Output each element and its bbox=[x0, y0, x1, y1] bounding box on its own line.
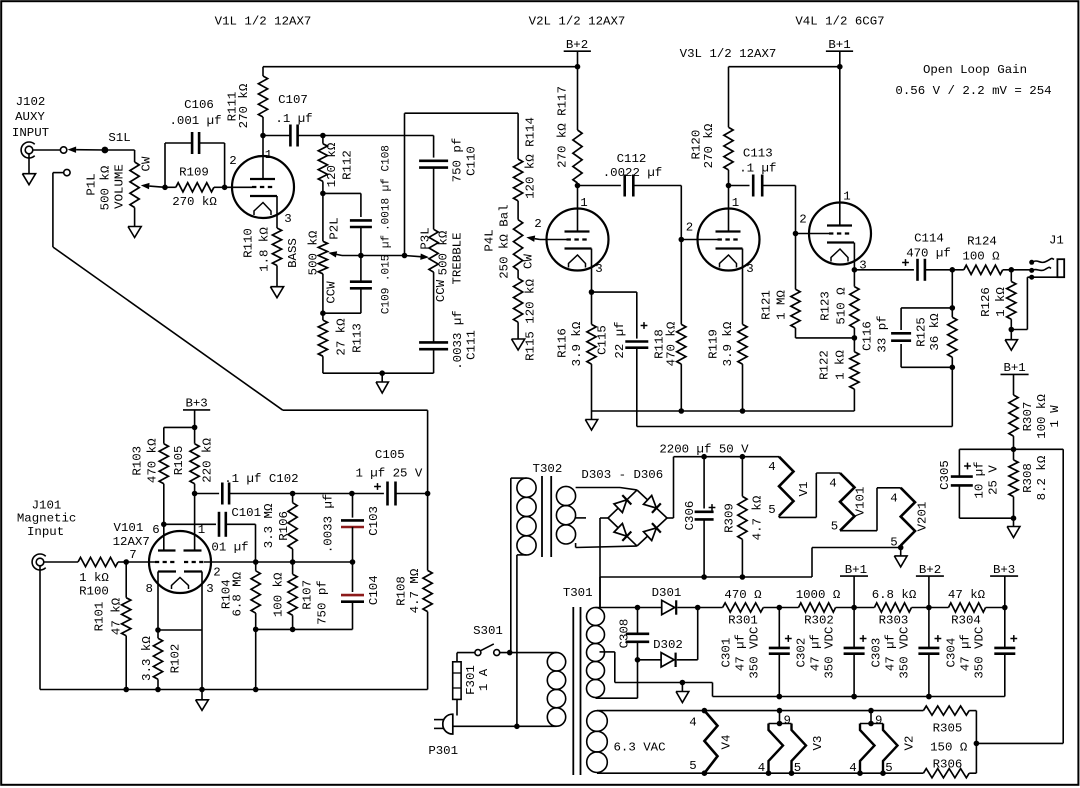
resistor R104 bbox=[251, 571, 260, 613]
wire C111 to bottom bbox=[433, 349, 435, 373]
node R103 bottom pin6 bbox=[161, 522, 167, 528]
svg-text:8.2 kΩ: 8.2 kΩ bbox=[1035, 455, 1049, 500]
resistor R301 bbox=[723, 603, 764, 612]
svg-text:R308: R308 bbox=[1021, 463, 1035, 493]
wire V2L cathode lead bbox=[591, 249, 593, 293]
svg-text:5: 5 bbox=[768, 503, 775, 517]
capacitor C104 bbox=[352, 562, 354, 592]
svg-text:R115 120 kΩ: R115 120 kΩ bbox=[524, 279, 538, 361]
wire T301 center tap bbox=[600, 651, 615, 653]
ground J102 bbox=[28, 154, 30, 174]
ground R308 bbox=[1013, 518, 1015, 526]
node R109 right / grid bbox=[222, 185, 228, 191]
svg-text:C111: C111 bbox=[465, 330, 479, 360]
wire V1L cathode lead bbox=[276, 196, 278, 228]
node C306 top bbox=[701, 454, 707, 460]
svg-text:V3: V3 bbox=[811, 736, 825, 751]
svg-text:R307: R307 bbox=[1021, 402, 1035, 432]
svg-text:6.3 VAC: 6.3 VAC bbox=[613, 741, 665, 755]
node R107 bottom bbox=[290, 627, 296, 633]
wire V2L anode lead bbox=[577, 186, 579, 232]
svg-text:R110: R110 bbox=[242, 228, 256, 258]
svg-text:470 kΩ: 470 kΩ bbox=[146, 438, 160, 483]
svg-text:5: 5 bbox=[794, 761, 801, 775]
node tone stack ground bbox=[379, 370, 385, 376]
wire P3L bottom bbox=[433, 272, 435, 342]
resistor R126 bbox=[1010, 270, 1012, 282]
svg-text:J1: J1 bbox=[1049, 234, 1064, 248]
switch S1L throw 2 bbox=[64, 169, 70, 175]
wire T301 sec bottom bbox=[596, 697, 638, 699]
capacitor C301 bbox=[778, 608, 780, 648]
svg-text:1 kΩ: 1 kΩ bbox=[994, 287, 1008, 317]
svg-text:CW: CW bbox=[140, 156, 154, 171]
fuse F301 bbox=[453, 662, 461, 700]
node R125 bottom bbox=[950, 365, 956, 371]
wire switch to T301 primary bbox=[500, 652, 557, 654]
wire V101 pin6 lead bbox=[163, 524, 165, 550]
svg-text:V2L 1/2 12AX7: V2L 1/2 12AX7 bbox=[529, 15, 626, 29]
svg-text:V2: V2 bbox=[903, 736, 917, 751]
svg-text:R107: R107 bbox=[301, 580, 315, 610]
node V4 bottom bbox=[702, 770, 708, 776]
ground R126 bbox=[1010, 330, 1012, 340]
svg-text:R103: R103 bbox=[131, 446, 145, 476]
svg-text:47 µf: 47 µf bbox=[959, 634, 973, 671]
resistor R108 bbox=[423, 570, 432, 611]
node R107 top bbox=[290, 559, 296, 565]
svg-text:R113: R113 bbox=[351, 323, 365, 353]
svg-text:1: 1 bbox=[198, 523, 205, 537]
node R101 bottom bbox=[123, 687, 129, 693]
node V101 grid A bbox=[123, 559, 129, 565]
node R118 bottom bbox=[679, 408, 685, 414]
node D301 out bbox=[695, 605, 701, 611]
wire C103 bottom bbox=[352, 527, 354, 562]
node cathode A junction bbox=[155, 627, 161, 633]
node C302 bottom bbox=[851, 694, 857, 700]
svg-text:750 pf: 750 pf bbox=[316, 580, 330, 625]
resistor R116 bbox=[591, 292, 593, 324]
svg-text:B+2: B+2 bbox=[566, 38, 588, 52]
node B+2 rail junction bbox=[575, 64, 581, 70]
wire C115 to lower rail bbox=[636, 348, 638, 427]
resistor R121 bbox=[795, 234, 797, 290]
svg-text:270 kΩ: 270 kΩ bbox=[172, 195, 217, 209]
svg-text:C302: C302 bbox=[795, 638, 809, 668]
svg-text:R304: R304 bbox=[951, 613, 981, 627]
svg-text:1.8 kΩ: 1.8 kΩ bbox=[258, 227, 272, 272]
polarity C105 bbox=[374, 486, 381, 488]
svg-text:P3L: P3L bbox=[419, 227, 433, 249]
svg-text:500 kΩ: 500 kΩ bbox=[306, 230, 320, 275]
polarity C115 bbox=[641, 325, 648, 327]
node R105 bottom pin1 bbox=[192, 491, 198, 497]
svg-text:4: 4 bbox=[849, 761, 856, 775]
svg-text:10 µf: 10 µf bbox=[972, 461, 986, 498]
svg-text:C114: C114 bbox=[914, 231, 944, 245]
ground V201 bbox=[900, 548, 902, 556]
node C306 bottom bbox=[701, 574, 707, 580]
svg-text:4: 4 bbox=[890, 492, 897, 506]
svg-text:R305: R305 bbox=[933, 721, 963, 735]
svg-text:Open Loop Gain: Open Loop Gain bbox=[923, 63, 1027, 77]
node C103/C104 mid bbox=[350, 559, 356, 565]
node R106 top bbox=[290, 491, 296, 497]
wire heater loop top bbox=[597, 710, 923, 712]
svg-text:270 kΩ: 270 kΩ bbox=[702, 123, 716, 168]
node C301 bottom bbox=[777, 694, 783, 700]
resistor R302 bbox=[779, 607, 798, 609]
svg-text:2: 2 bbox=[534, 217, 541, 231]
svg-text:47 µf: 47 µf bbox=[809, 634, 823, 671]
svg-text:.0033 µf: .0033 µf bbox=[451, 310, 465, 370]
ground cathode rail bbox=[591, 411, 593, 420]
capacitor C116 loop bbox=[901, 307, 952, 309]
wire T302 sec bottom bbox=[575, 543, 577, 548]
node C302 top bbox=[851, 605, 857, 611]
wire C112 to V3L grid bbox=[680, 186, 682, 240]
svg-text:470 kΩ: 470 kΩ bbox=[665, 321, 679, 366]
resistor R113 bbox=[322, 313, 324, 320]
svg-text:TREBBLE: TREBBLE bbox=[451, 232, 465, 284]
node feedback tap bbox=[974, 741, 980, 747]
heater V4 bbox=[704, 711, 717, 774]
svg-text:3: 3 bbox=[206, 582, 213, 596]
capacitor C305 bbox=[959, 448, 1013, 450]
svg-text:3.3 kΩ: 3.3 kΩ bbox=[140, 636, 154, 681]
wire T301 sec top bbox=[599, 577, 601, 608]
polarity C114 bbox=[902, 262, 909, 264]
svg-text:510 Ω: 510 Ω bbox=[835, 287, 849, 325]
resistor R106 bbox=[292, 494, 294, 503]
node V2 center tap bbox=[868, 721, 874, 727]
svg-text:R106: R106 bbox=[277, 511, 291, 541]
svg-text:R109: R109 bbox=[179, 165, 209, 179]
svg-text:C306: C306 bbox=[683, 501, 697, 531]
wire filter row bbox=[698, 607, 723, 609]
svg-text:C109 .015 µf: C109 .015 µf bbox=[381, 235, 393, 314]
svg-text:C305: C305 bbox=[938, 460, 952, 490]
wire R125 to lower rail bbox=[951, 367, 953, 426]
svg-text:R303: R303 bbox=[879, 613, 909, 627]
node V3L grid bbox=[679, 237, 685, 243]
svg-text:4: 4 bbox=[758, 761, 765, 775]
plug P301 bbox=[443, 714, 453, 734]
resistor R122 bbox=[853, 338, 855, 352]
resistor R303 bbox=[854, 607, 874, 609]
wire T302 center tap bbox=[576, 517, 586, 519]
wire V3L cathode lead bbox=[742, 249, 744, 325]
node R112 top bbox=[320, 133, 326, 139]
transformer T302 secondary bbox=[556, 486, 575, 505]
node V201 bottom bbox=[898, 545, 904, 551]
svg-text:47 kΩ: 47 kΩ bbox=[110, 597, 124, 635]
jack J101 bbox=[36, 558, 44, 566]
resistor R102 bbox=[157, 630, 159, 638]
capacitor C107 bbox=[263, 135, 290, 137]
heater V3 bbox=[779, 711, 781, 724]
wire V101 pin1 lead bbox=[194, 494, 196, 551]
wiper P4L bbox=[535, 238, 540, 241]
wire lower eq row bbox=[256, 628, 353, 630]
node R102 bottom bbox=[155, 687, 161, 693]
svg-text:1: 1 bbox=[580, 196, 587, 210]
svg-text:S301: S301 bbox=[473, 624, 503, 638]
transformer T301 primary bbox=[547, 653, 565, 671]
capacitor C110 bbox=[433, 136, 435, 158]
heater resistor V1 bbox=[779, 457, 794, 516]
resistor R110 bbox=[272, 228, 281, 266]
svg-text:C107: C107 bbox=[278, 93, 308, 107]
svg-text:B+3: B+3 bbox=[993, 563, 1015, 577]
svg-text:6.8 kΩ: 6.8 kΩ bbox=[872, 588, 917, 602]
wire V4L cathode lead bbox=[853, 243, 855, 270]
resistor R115 bbox=[517, 270, 519, 278]
svg-text:C110: C110 bbox=[465, 146, 479, 176]
node T302 primary tap 1 bbox=[507, 650, 513, 656]
capacitor C105 bbox=[352, 493, 384, 495]
svg-text:.0022 µf: .0022 µf bbox=[603, 166, 663, 180]
svg-text:27 kΩ: 27 kΩ bbox=[335, 318, 349, 356]
capacitor C102 bbox=[195, 493, 220, 495]
svg-text:C103: C103 bbox=[367, 506, 381, 536]
svg-text:R119: R119 bbox=[707, 329, 721, 359]
node V4 top bbox=[702, 708, 708, 714]
svg-text:R302: R302 bbox=[804, 613, 834, 627]
wire R112 to C108 bbox=[323, 192, 361, 194]
capacitor C108 bbox=[350, 219, 372, 222]
wire C109 bottom bbox=[360, 288, 362, 313]
svg-text:R301: R301 bbox=[728, 613, 758, 627]
svg-text:1 kΩ: 1 kΩ bbox=[834, 350, 848, 380]
svg-text:5: 5 bbox=[831, 520, 838, 534]
switch S1L contact bbox=[60, 147, 66, 153]
capacitor C304 bbox=[1004, 608, 1006, 648]
wire cathode rail bbox=[592, 410, 855, 412]
svg-text:0.56 V / 2.2 mV = 254: 0.56 V / 2.2 mV = 254 bbox=[895, 84, 1051, 98]
resistor R112 bbox=[322, 136, 324, 144]
capacitor C302 bbox=[853, 608, 855, 648]
svg-text:V101: V101 bbox=[854, 487, 868, 517]
svg-text:B+1: B+1 bbox=[845, 563, 867, 577]
svg-text:270 kΩ: 270 kΩ bbox=[237, 83, 251, 128]
svg-text:V1L 1/2 12AX7: V1L 1/2 12AX7 bbox=[215, 15, 312, 29]
svg-text:C101: C101 bbox=[231, 506, 261, 520]
svg-text:BASS: BASS bbox=[286, 238, 300, 268]
resistor R101 bbox=[125, 562, 127, 598]
wire V101 to V201 bbox=[840, 530, 877, 532]
svg-text:R306: R306 bbox=[933, 757, 963, 771]
resistor R123 bbox=[853, 270, 855, 287]
wire heater loop bottom bbox=[597, 772, 923, 774]
svg-text:R309: R309 bbox=[723, 503, 737, 533]
wire rectifier negative rail bbox=[600, 576, 812, 578]
svg-text:VOLUME: VOLUME bbox=[113, 164, 127, 209]
svg-text:350 VDC: 350 VDC bbox=[973, 627, 987, 679]
svg-text:C106: C106 bbox=[184, 98, 214, 112]
wire C110 to P3L bbox=[433, 168, 435, 230]
svg-text:.0033 µf: .0033 µf bbox=[322, 494, 336, 554]
wire diagonal aux to magnetic stage bbox=[53, 247, 283, 410]
resistor R306 bbox=[923, 769, 969, 778]
wire V4L anode lead bbox=[839, 67, 841, 226]
svg-text:1 kΩ: 1 kΩ bbox=[79, 571, 109, 585]
node R104 rail bbox=[253, 687, 259, 693]
svg-text:750 pf: 750 pf bbox=[451, 138, 465, 183]
svg-text:D302: D302 bbox=[653, 638, 683, 652]
wire filter ground rail bbox=[712, 683, 714, 697]
svg-text:V4L 1/2 6CG7: V4L 1/2 6CG7 bbox=[795, 15, 884, 29]
heater resistor V101 bbox=[840, 473, 855, 531]
svg-text:1: 1 bbox=[843, 190, 850, 204]
svg-text:36 kΩ: 36 kΩ bbox=[928, 313, 942, 351]
resistor R111 bbox=[262, 67, 264, 76]
node C304 top bbox=[1002, 605, 1008, 611]
potentiometer P3L bbox=[429, 229, 438, 272]
svg-text:J101: J101 bbox=[32, 498, 62, 512]
node S1L pole bbox=[102, 147, 109, 154]
node V3 center tap bbox=[777, 721, 783, 727]
svg-text:R124: R124 bbox=[967, 234, 997, 248]
jack J1 bbox=[1011, 269, 1031, 271]
svg-text:.1 µf: .1 µf bbox=[275, 112, 312, 126]
wire V101 cathode B pin3 bbox=[201, 572, 203, 690]
svg-text:.1 µf: .1 µf bbox=[739, 161, 776, 175]
jack J1 tip contact bbox=[1029, 260, 1034, 265]
svg-text:R126: R126 bbox=[979, 287, 993, 317]
transformer T301 6.3V winding bbox=[587, 711, 608, 732]
node R123 bottom bbox=[852, 335, 858, 341]
svg-text:8: 8 bbox=[145, 582, 152, 596]
potentiometer P4L bbox=[514, 220, 523, 270]
wire aux feed column bbox=[427, 410, 429, 570]
svg-text:470 Ω: 470 Ω bbox=[724, 588, 762, 602]
node V2 top bbox=[868, 708, 874, 714]
node R307 bottom bbox=[1011, 447, 1017, 453]
svg-text:AUXY: AUXY bbox=[15, 110, 45, 124]
wire cathode jumper bbox=[158, 629, 202, 631]
svg-text:C112: C112 bbox=[617, 152, 647, 166]
jack J1 ring contact bbox=[1029, 268, 1034, 273]
transformer T301 HV secondary bbox=[587, 608, 605, 626]
capacitor C306 bbox=[703, 457, 705, 509]
resistor R120 bbox=[728, 67, 730, 128]
polarity C306 bbox=[709, 507, 716, 509]
svg-text:B+1: B+1 bbox=[828, 38, 850, 52]
polarity C304 bbox=[1010, 638, 1017, 640]
capacitor C111 bbox=[419, 341, 448, 344]
node C301 rail bbox=[777, 694, 783, 700]
node R125 top bbox=[950, 305, 956, 311]
svg-text:150 Ω: 150 Ω bbox=[930, 741, 968, 755]
svg-text:C303: C303 bbox=[870, 638, 884, 668]
node C303 rail bbox=[926, 694, 932, 700]
ground P1L bbox=[134, 208, 136, 227]
resistor R304 bbox=[929, 607, 949, 609]
wire V4L grid lead bbox=[796, 233, 830, 235]
svg-text:C308: C308 bbox=[618, 619, 632, 649]
wire C107 to C110 bbox=[323, 135, 434, 137]
svg-text:.1 µf C102: .1 µf C102 bbox=[224, 472, 298, 486]
svg-text:01 µf: 01 µf bbox=[211, 540, 248, 554]
svg-text:C113: C113 bbox=[743, 147, 773, 161]
node C303 bottom bbox=[926, 694, 932, 700]
svg-text:4: 4 bbox=[689, 716, 696, 730]
wire V3L anode lead bbox=[728, 186, 730, 232]
resistor R105 bbox=[194, 427, 196, 443]
wiper P2L bbox=[337, 254, 342, 255]
node V4L grid bbox=[793, 231, 799, 237]
resistor R125 bbox=[948, 317, 957, 357]
node P2L bottom bbox=[320, 310, 326, 316]
svg-text:4.7 kΩ: 4.7 kΩ bbox=[751, 495, 765, 540]
svg-text:C304: C304 bbox=[945, 638, 959, 668]
switch S301 bbox=[475, 650, 481, 656]
svg-text:9: 9 bbox=[784, 714, 791, 728]
svg-text:4.7 MΩ: 4.7 MΩ bbox=[408, 568, 422, 613]
ground tone stack bbox=[381, 373, 383, 382]
svg-text:C104: C104 bbox=[367, 575, 381, 605]
resistor R100 bbox=[44, 561, 78, 563]
svg-text:220 kΩ: 220 kΩ bbox=[201, 438, 215, 483]
resistor R119 bbox=[738, 324, 747, 364]
svg-text:4: 4 bbox=[768, 460, 775, 474]
svg-text:B+3: B+3 bbox=[185, 397, 207, 411]
svg-text:D303 - D306: D303 - D306 bbox=[581, 468, 663, 482]
svg-text:6.8 MΩ: 6.8 MΩ bbox=[231, 571, 245, 616]
svg-text:100 kΩ: 100 kΩ bbox=[272, 572, 286, 617]
node C308 top bbox=[635, 605, 641, 611]
svg-text:F301: F301 bbox=[464, 665, 478, 695]
wire V3L B+ feed bbox=[729, 66, 840, 68]
svg-text:7: 7 bbox=[129, 548, 136, 562]
node V3 bottom 4 bbox=[766, 770, 772, 776]
svg-text:2: 2 bbox=[229, 154, 236, 168]
potentiometer P1L bbox=[130, 162, 139, 208]
svg-text:500 kΩ: 500 kΩ bbox=[437, 230, 451, 275]
capacitor C112 bbox=[578, 185, 621, 187]
svg-text:.0018 µf C108: .0018 µf C108 bbox=[381, 145, 393, 231]
svg-text:470 µf: 470 µf bbox=[906, 246, 951, 260]
svg-text:CW: CW bbox=[522, 254, 536, 269]
node V4L cathode bbox=[852, 267, 858, 273]
svg-text:100 kΩ: 100 kΩ bbox=[1035, 394, 1049, 439]
svg-text:47 µf: 47 µf bbox=[734, 634, 748, 671]
wire B+2 rail bbox=[577, 51, 579, 66]
svg-text:R116: R116 bbox=[556, 328, 570, 358]
node V1L anode junction bbox=[260, 133, 266, 139]
transformer T302 primary bbox=[517, 478, 536, 497]
ground input stage bbox=[201, 690, 203, 700]
bridge rectifier D303-D306 bbox=[608, 490, 637, 518]
node R126 top bbox=[1009, 267, 1015, 273]
wire J102 to S1L bbox=[33, 149, 61, 151]
wire T302 sec top bbox=[576, 487, 620, 489]
svg-text:R101: R101 bbox=[93, 602, 107, 632]
ground power supply bbox=[681, 683, 683, 692]
polarity C302 bbox=[860, 638, 867, 640]
resistor R103 bbox=[163, 427, 165, 443]
resistor R117 bbox=[577, 67, 579, 130]
svg-text:2: 2 bbox=[686, 221, 693, 235]
resistor R308 bbox=[1013, 449, 1015, 460]
node C105 out bbox=[425, 491, 431, 497]
heater V2 bbox=[870, 711, 872, 724]
capacitor C101 bbox=[164, 523, 216, 525]
svg-text:1: 1 bbox=[732, 196, 739, 210]
wire R125 top bbox=[951, 270, 953, 308]
